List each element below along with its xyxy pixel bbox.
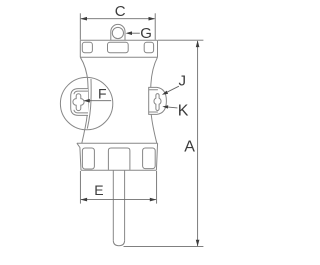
- dimension A bottom extension line: [124, 246, 204, 248]
- label J leader arrow: [165, 86, 179, 93]
- svg-text:G: G: [140, 25, 152, 42]
- body right edge: [151, 57, 158, 143]
- gland rib middle (cable boss): [108, 148, 129, 170]
- svg-text:A: A: [184, 139, 195, 156]
- eyelet ring inner circle: [112, 27, 123, 38]
- svg-text:K: K: [178, 102, 189, 119]
- latch screw slot right (plus shape): [154, 94, 161, 111]
- gland rib left: [82, 148, 94, 169]
- cap right side: [157, 40, 159, 57]
- svg-text:C: C: [115, 3, 126, 20]
- latch bracket right (outer): [149, 87, 167, 114]
- svg-text:J: J: [179, 73, 187, 90]
- detail circle (magnifier): [60, 77, 112, 129]
- body left edge: [80, 57, 88, 143]
- dimension C arrowheads: [80, 17, 155, 21]
- dimension A arrowheads: [196, 40, 200, 246]
- eyelet ring outer: [111, 24, 125, 40]
- gland right side: [156, 143, 157, 170]
- cable bottom U: [113, 241, 124, 246]
- dimension E arrowheads: [80, 198, 156, 202]
- cable right edge: [124, 170, 126, 241]
- svg-text:F: F: [98, 85, 107, 101]
- label K leader arrow: [166, 107, 178, 108]
- cap rib right: [144, 42, 153, 52]
- cable left edge: [112, 170, 114, 241]
- gland band bottom edge: [81, 169, 156, 171]
- gland left side: [77, 143, 81, 170]
- magnified body edge line 2: [87, 79, 91, 129]
- dimension C line: [81, 18, 155, 20]
- cap top edge: [80, 39, 157, 41]
- dimension E line: [81, 199, 156, 201]
- label G leader arrow: [129, 32, 140, 34]
- dimension E extension lines: [80, 171, 156, 204]
- dimension A line: [197, 41, 199, 246]
- cap left side: [79, 40, 81, 57]
- cap band bottom edge: [80, 56, 157, 58]
- gland top edge: [77, 142, 158, 144]
- label F leader arrow: [88, 100, 111, 102]
- cap rib middle: [108, 42, 129, 52]
- magnified latch inner flange lines: [74, 91, 88, 113]
- dimension C extension lines: [80, 13, 155, 40]
- magnified body edge line 1: [85, 78, 88, 130]
- gland rib right: [143, 148, 156, 169]
- latch bracket right inner flange lines: [149, 90, 158, 112]
- dimension A top extension line: [158, 39, 203, 41]
- cap rib left: [82, 42, 92, 52]
- magnified screw slot (plus shape): [73, 94, 84, 111]
- magnified latch bracket outer: [71, 89, 88, 116]
- svg-text:E: E: [94, 182, 103, 198]
